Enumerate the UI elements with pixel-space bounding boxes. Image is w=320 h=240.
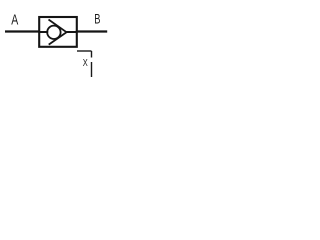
valve body box [39, 17, 77, 47]
wire: internal line from seat apex to right edge [67, 31, 77, 33]
check valve seat lower leg [49, 32, 67, 44]
background [0, 0, 111, 81]
pilot line vertical dashed segment [91, 51, 93, 77]
check valve ball [47, 26, 60, 39]
wire: port A line [5, 30, 40, 32]
svg-text:B: B [94, 11, 100, 26]
wire: internal line from left edge to ball [40, 31, 48, 33]
wire: port B line [76, 30, 107, 32]
svg-text:A: A [11, 13, 18, 29]
svg-text:X: X [83, 57, 88, 69]
check valve seat upper leg [49, 20, 67, 33]
pilot line horizontal segment [77, 50, 92, 52]
